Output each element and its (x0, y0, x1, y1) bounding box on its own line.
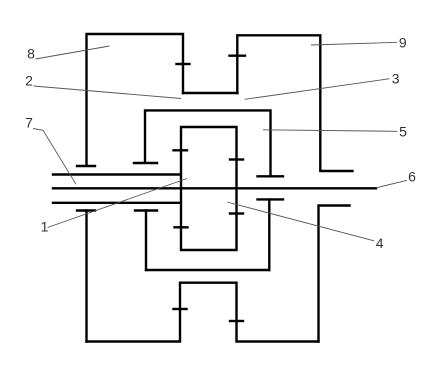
svg-text:2: 2 (25, 73, 33, 89)
U bottom horizontal between top boxes (183, 92, 238, 94)
shaft upper line (53, 173, 179, 175)
shaft lower line (53, 202, 179, 204)
leader line 8 (36, 46, 110, 59)
shaft middle line 6 (53, 187, 376, 189)
svg-text:6: 6 (408, 169, 416, 185)
lower-left bearing T-bar outer (77, 209, 95, 211)
lower-right bearing T-bar (258, 198, 284, 200)
svg-text:3: 3 (392, 71, 400, 87)
bottom-right flange and vertical (319, 206, 350, 342)
clutch tick on bottom notch left vertical (174, 308, 187, 310)
inner gear box 4 (181, 127, 237, 250)
carrier bottom horizontal (146, 269, 269, 271)
clutch tick on bottom notch right vertical (230, 320, 243, 322)
housing top-left box (8) (87, 34, 184, 165)
clutch tick 3 on right U vertical (230, 55, 246, 57)
svg-text:1: 1 (41, 219, 49, 235)
leader line 7 (33, 129, 76, 185)
gear tick lower-left on inner box (175, 226, 188, 228)
bearing T-bar under left housing vertical (77, 165, 95, 167)
gear tick lower-right on inner box (230, 212, 243, 214)
svg-text:7: 7 (25, 115, 33, 131)
housing bottom-left vertical (85, 211, 87, 342)
leader line 4 (227, 202, 374, 241)
gear tick upper-left on inner box (174, 149, 188, 151)
svg-text:5: 5 (399, 124, 407, 140)
lower-left bearing T-bar inner (135, 209, 157, 211)
housing top-right box (9) (237, 35, 352, 171)
ring gear box 5 top (145, 110, 271, 175)
leader line 6 (376, 180, 407, 188)
svg-text:8: 8 (27, 46, 35, 62)
svg-text:4: 4 (376, 235, 384, 251)
leader line 5 (263, 130, 398, 132)
svg-text:9: 9 (399, 35, 407, 51)
leader line 2 (34, 86, 182, 99)
gear tick upper-right on inner box (230, 158, 243, 160)
ring gear right T-bar (258, 175, 284, 177)
leader line 9 (311, 42, 397, 45)
ring gear left T-bar (134, 162, 157, 164)
leader line 3 (245, 79, 390, 100)
leader line 1 (48, 179, 188, 228)
bottom housing outline with notch (87, 283, 319, 342)
carrier right vertical (268, 199, 270, 270)
carrier left vertical (145, 211, 147, 271)
clutch tick 2 on left U vertical (177, 63, 190, 65)
